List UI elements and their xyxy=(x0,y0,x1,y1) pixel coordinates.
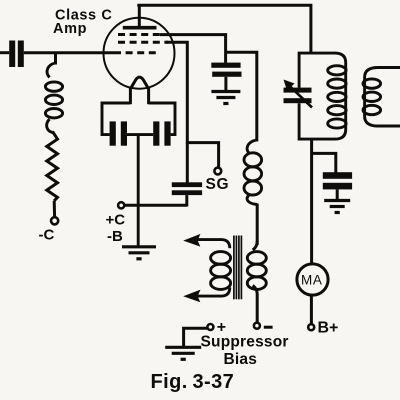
tube suppressor grid (dashed) xyxy=(118,33,162,36)
svg-text:MA: MA xyxy=(301,272,322,287)
inductor T1 primary xyxy=(211,252,231,265)
node grid-leak junction xyxy=(54,53,57,65)
capacitor C4 (screen bypass) xyxy=(172,182,202,187)
svg-text:Fig.: Fig. xyxy=(151,371,188,393)
terminal plus xyxy=(207,324,213,330)
wire T1 primary bottom lead xyxy=(198,288,230,297)
wire SG terminal branch xyxy=(186,143,219,168)
svg-text:Bias: Bias xyxy=(224,351,258,368)
wire suppressor to choke xyxy=(226,52,257,141)
wire suppressor lead xyxy=(160,35,226,63)
arrow drive bottom xyxy=(183,290,200,303)
wire T1 secondary bottom xyxy=(253,286,258,323)
svg-text:3-37: 3-37 xyxy=(193,371,235,393)
capacitor C7 (plate bypass) xyxy=(323,172,352,179)
ground bias xyxy=(165,346,201,349)
wire C7 to ground xyxy=(336,189,339,200)
wire screen cap to +C bus xyxy=(185,195,188,206)
svg-text:-B: -B xyxy=(107,228,123,245)
wire tank frame xyxy=(299,53,335,88)
tube control grid (dashed) xyxy=(114,51,160,54)
wire filament frame xyxy=(102,103,130,135)
wire filament center xyxy=(127,133,153,136)
tube plate xyxy=(123,26,157,30)
inductor T1 secondary xyxy=(247,252,266,265)
inductor L1 (grid choke) xyxy=(47,63,55,78)
terminal B+ xyxy=(308,324,314,330)
wire tank bottom down xyxy=(310,139,313,264)
svg-text:Suppressor: Suppressor xyxy=(201,334,289,351)
ground suppressor cap xyxy=(211,90,240,93)
wire screen grid lead xyxy=(166,42,187,142)
capacitor C3 (filament bypass right) xyxy=(153,121,159,145)
inductor L2 (suppressor RF choke) xyxy=(247,140,257,154)
wire filament leg left xyxy=(129,88,132,105)
terminal SG xyxy=(214,168,221,175)
wire input to grid xyxy=(24,51,114,54)
label minus xyxy=(264,326,273,329)
wire T1 primary top lead xyxy=(198,240,230,249)
wire T1 secondary top xyxy=(253,241,258,250)
capacitor C5 (suppressor bypass) xyxy=(211,63,240,68)
wire +C bus xyxy=(124,204,187,207)
inductor L3 (tank coil) xyxy=(335,53,346,139)
wire plate lead xyxy=(138,5,141,27)
transformer T1 core xyxy=(233,236,235,300)
resistor R1 (grid leak) xyxy=(47,132,58,202)
svg-text:SG: SG xyxy=(206,176,230,193)
svg-text:Amp: Amp xyxy=(53,21,87,37)
ground plate bypass xyxy=(324,199,350,202)
arrow drive top xyxy=(183,234,200,247)
terminal minus xyxy=(254,323,260,329)
wire C5 to ground xyxy=(224,77,227,91)
inductor L4 (output link) xyxy=(365,68,400,127)
capacitor C1 (input coupling) xyxy=(9,41,15,68)
wire input left xyxy=(0,51,9,54)
terminal -C xyxy=(51,217,58,224)
tube screen grid (dashed) xyxy=(118,41,168,44)
svg-text:-C: -C xyxy=(39,227,55,244)
ground main xyxy=(122,245,156,248)
wire to screen capacitor xyxy=(186,143,189,183)
wire choke to transformer xyxy=(256,204,259,246)
capacitor C6 (tank tuning, variable) xyxy=(284,88,312,93)
wire meter to B+ terminal xyxy=(310,295,313,324)
svg-text:B+: B+ xyxy=(318,320,339,337)
wire plate to tank xyxy=(137,5,311,53)
wire center tap down xyxy=(137,135,140,247)
svg-text:+C: +C xyxy=(106,212,126,229)
wire branch to plate bypass xyxy=(312,153,336,172)
tube V1 envelope xyxy=(104,18,175,89)
meter M1 (MA) xyxy=(297,264,328,295)
wire filament leg right xyxy=(147,88,150,105)
terminal +C/-B xyxy=(118,202,124,208)
tube filament cathode xyxy=(130,77,148,89)
capacitor C2 (filament bypass left) xyxy=(110,121,116,145)
wire plus to ground xyxy=(184,328,208,347)
wire resistor to -C terminal xyxy=(53,201,56,217)
